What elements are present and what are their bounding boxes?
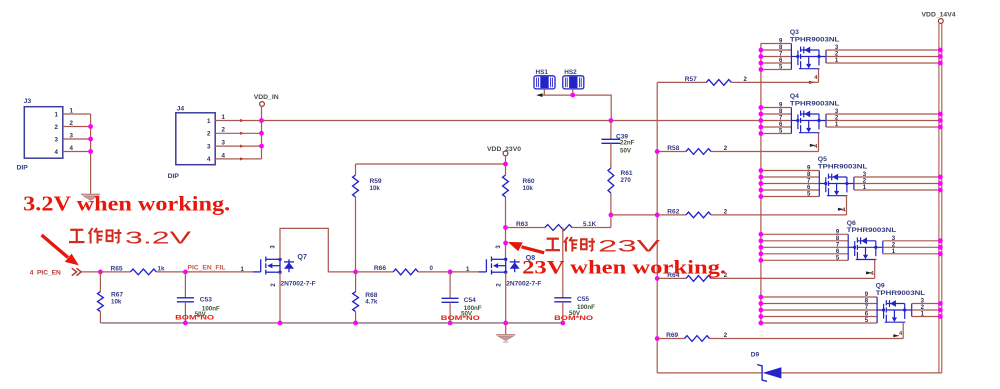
svg-text:R58: R58 <box>667 145 679 152</box>
wire Q4 gate stub pin <box>761 113 792 115</box>
wire Q4 drain stub <box>826 120 942 122</box>
arrow pin4 Q6 <box>866 271 872 274</box>
wire mosfet gate trunk <box>760 44 762 323</box>
svg-text:R63: R63 <box>516 221 528 228</box>
svg-text:C53: C53 <box>200 296 212 303</box>
wire HS1 drop <box>543 89 545 95</box>
junction bus R58 <box>655 149 660 154</box>
wire Q6 gate stub pin <box>761 233 848 235</box>
annotation red arrow to PIC_EN <box>42 235 68 258</box>
svg-text:C55: C55 <box>577 296 589 303</box>
wire Q5 gate stub pin <box>761 176 819 178</box>
svg-text:0: 0 <box>430 265 434 272</box>
svg-text:10k: 10k <box>523 185 534 192</box>
svg-text:4: 4 <box>222 152 226 159</box>
svg-text:TPHR9003NL: TPHR9003NL <box>818 163 868 170</box>
wire Q3 gate stub pin <box>761 49 792 51</box>
wire Q4 drain stub <box>826 126 942 128</box>
wire Q3 drain stub <box>826 49 942 51</box>
svg-text:3: 3 <box>70 132 74 139</box>
resistor R67 <box>99 272 101 292</box>
arrow pin4 Q9 <box>893 334 899 337</box>
svg-text:BOM*NO: BOM*NO <box>441 315 480 322</box>
wire Q3 drain stub <box>826 62 942 64</box>
svg-text:23V when working.: 23V when working. <box>522 257 726 278</box>
wire Q3 gate stub pin <box>761 62 792 64</box>
svg-text:2N7002-7-F: 2N7002-7-F <box>506 281 541 288</box>
svg-text:3.2V: 3.2V <box>125 228 192 248</box>
svg-text:Q5: Q5 <box>818 156 827 163</box>
wire Q3 drain stub <box>826 56 942 58</box>
wire rail to ground <box>505 323 507 334</box>
wire Q9 gate stub pin <box>761 303 877 305</box>
bottom rail (ground rail) <box>100 322 562 324</box>
wire Q4 gate stub pin <box>761 126 792 128</box>
wire to gate bus <box>611 214 657 216</box>
wire R60 to Q8 drain <box>505 197 507 259</box>
svg-text:10k: 10k <box>111 298 122 305</box>
wire VDD_IN long row to Q4 gate bus <box>262 120 761 122</box>
jumper HS2 <box>563 76 584 89</box>
svg-text:2N7002-7-F: 2N7002-7-F <box>281 281 316 288</box>
wire Q6 gate stub pin <box>761 253 848 255</box>
wire J4 pin stub <box>215 145 261 147</box>
wire Q4 gate stub pin <box>761 133 792 135</box>
ground center <box>496 334 515 336</box>
resistor R60 <box>505 164 507 175</box>
svg-text:1: 1 <box>222 114 226 121</box>
wire J3 pins to ground <box>90 114 92 194</box>
capacitor C39 <box>610 121 612 140</box>
svg-text:2: 2 <box>207 131 211 138</box>
wire HS2 drop <box>572 89 574 95</box>
svg-text:PIC_EN: PIC_EN <box>37 269 61 276</box>
svg-text:TPHR9003NL: TPHR9003NL <box>790 36 840 43</box>
junction VDD_23V0 <box>503 162 508 167</box>
resistor R59 <box>355 164 357 175</box>
resistor R58 <box>657 151 686 153</box>
wire Q9 gate stub pin <box>761 322 877 324</box>
transistor Q9 <box>877 297 912 323</box>
wire gate drive bus vertical <box>656 82 658 373</box>
junction rail C53 <box>183 321 188 326</box>
resistor R69 <box>657 338 684 340</box>
svg-text:4.7k: 4.7k <box>365 299 378 306</box>
svg-text:4: 4 <box>30 269 34 276</box>
arrow pin4 Q4 <box>810 144 816 147</box>
svg-text:BOM*NO: BOM*NO <box>554 315 593 322</box>
svg-text:R65: R65 <box>111 265 123 272</box>
wire Q3 gate stub pin <box>761 56 792 58</box>
svg-text:1: 1 <box>207 118 211 125</box>
junction HS2 <box>570 93 575 98</box>
wire VDD_14V4 bus (double line) <box>938 24 940 373</box>
wire Q9 pin4 <box>902 322 904 338</box>
capacitor C53 <box>184 272 186 298</box>
svg-text:23V: 23V <box>598 238 660 256</box>
junction PIC_EN_FIL / C53 <box>183 270 188 275</box>
svg-text:R60: R60 <box>523 178 535 185</box>
svg-text:TPHR9003NL: TPHR9003NL <box>876 290 926 297</box>
wire J3 pin stub <box>63 126 91 128</box>
svg-text:50V: 50V <box>620 148 632 155</box>
arrow pin4 Q5 <box>838 208 844 211</box>
svg-text:3: 3 <box>222 140 226 147</box>
svg-text:10k: 10k <box>370 185 381 192</box>
resistor R64 <box>657 277 686 279</box>
connector J4 <box>176 113 215 165</box>
svg-text:4: 4 <box>55 149 59 156</box>
junction rail R68 <box>353 321 358 326</box>
svg-text:3: 3 <box>55 136 59 143</box>
wire Q4 gate stub pin <box>761 120 792 122</box>
svg-text:Q9: Q9 <box>876 283 885 290</box>
wire Q6 gate stub pin <box>761 259 848 261</box>
capacitor C54 <box>449 272 451 298</box>
wire Q7 drain loop <box>280 228 356 272</box>
wire Q5 drain stub <box>854 176 942 178</box>
svg-text:HS1: HS1 <box>536 69 549 76</box>
arrow pin4 Q3 <box>809 81 816 84</box>
wire Q9 gate stub pin <box>761 316 877 318</box>
wire HS row <box>538 95 611 120</box>
diode D9 (zener) <box>757 365 767 382</box>
annotation red arrow to Q8 drain <box>522 247 545 253</box>
transistor Q8 <box>479 257 520 275</box>
svg-text:R69: R69 <box>666 332 678 339</box>
junction bus R62 <box>655 213 660 218</box>
wire J4 pin stub <box>215 132 261 134</box>
junction rail Q8/ground <box>503 321 508 326</box>
wire Q7 source to rail <box>279 272 281 323</box>
svg-text:DIP: DIP <box>17 165 29 172</box>
wire Q6 gate stub pin <box>761 240 848 242</box>
junction HS row / VDD_IN row <box>609 118 614 123</box>
wire Q5 drain stub <box>854 189 942 191</box>
wire Q5 gate stub pin <box>761 183 819 185</box>
svg-text:J4: J4 <box>177 106 185 113</box>
junction J3 pin4 <box>88 149 93 154</box>
resistor R57 <box>657 81 706 83</box>
svg-text:BOM*NO: BOM*NO <box>175 314 214 321</box>
svg-text:TPHR9003NL: TPHR9003NL <box>847 227 897 234</box>
svg-text:3: 3 <box>207 143 211 150</box>
wire Q9 drain stub <box>912 309 942 311</box>
power symbol VDD_IN <box>260 102 265 107</box>
ground J3 <box>81 193 100 195</box>
junction bus R64 <box>655 276 660 281</box>
wire VDD_23V0 top row <box>356 163 506 165</box>
svg-text:5.1K: 5.1K <box>583 221 597 228</box>
junction J4 pin3 <box>259 144 264 149</box>
junction rail C54 <box>448 321 453 326</box>
transistor Q4 <box>791 108 826 134</box>
junction R63 tap <box>503 225 508 230</box>
wire Q9 drain stub <box>912 303 942 305</box>
transistor Q3 <box>791 44 826 70</box>
svg-text:D9: D9 <box>751 352 760 359</box>
wire Q5 pin4 <box>846 196 848 215</box>
wire PIC_EN to R65 <box>82 271 131 273</box>
wire Q4 pin4 <box>818 133 820 152</box>
wire Q3 gate stub pin <box>761 69 792 71</box>
junction arrow point <box>503 241 508 246</box>
transistor Q5 <box>819 171 854 197</box>
svg-text:Q3: Q3 <box>790 29 799 36</box>
svg-text:Q4: Q4 <box>790 93 799 100</box>
svg-text:R62: R62 <box>667 208 679 215</box>
wire Q5 drain stub <box>854 183 942 185</box>
wire J3 pin stub <box>63 113 91 115</box>
svg-text:4: 4 <box>70 145 74 152</box>
svg-text:3.2V when working.: 3.2V when working. <box>23 192 230 216</box>
wire Q6 drain stub <box>883 240 942 242</box>
annotation red chinese 工作时3.2V <box>69 230 85 242</box>
resistor R68 <box>355 272 357 292</box>
svg-text:VDD_IN: VDD_IN <box>254 94 279 101</box>
junction bus R69 <box>655 336 660 341</box>
power symbol VDD_23V0 <box>503 151 508 156</box>
svg-text:1: 1 <box>55 111 59 118</box>
transistor Q7 <box>253 257 294 275</box>
transistor Q6 <box>848 234 883 260</box>
wire Q8 source to rail <box>505 272 507 323</box>
wire Q5 gate stub pin <box>761 189 819 191</box>
junction rail C55 <box>560 321 565 326</box>
junction R61/R63/R62 row <box>609 213 614 218</box>
resistor R63 <box>506 227 546 229</box>
svg-text:HS2: HS2 <box>564 69 577 76</box>
svg-text:R59: R59 <box>370 178 382 185</box>
svg-text:R57: R57 <box>685 76 697 83</box>
svg-text:R67: R67 <box>111 291 123 298</box>
connector J3 <box>24 107 63 159</box>
wire Q6 gate stub pin <box>761 246 848 248</box>
svg-text:R66: R66 <box>374 265 386 272</box>
svg-text:4: 4 <box>207 156 211 163</box>
junction C54 tap <box>448 270 453 275</box>
wire Q9 gate stub pin <box>761 309 877 311</box>
svg-text:PIC_EN_FIL: PIC_EN_FIL <box>188 265 226 272</box>
wire Q6 drain stub <box>883 253 942 255</box>
svg-text:DIP: DIP <box>168 173 180 180</box>
svg-text:TPHR9003NL: TPHR9003NL <box>790 100 840 107</box>
svg-text:VDD_23V0: VDD_23V0 <box>487 146 521 153</box>
svg-text:VDD_14V4: VDD_14V4 <box>922 12 956 19</box>
wire J4 pin stub <box>215 120 261 122</box>
wire Q3 gate stub pin <box>761 43 792 45</box>
capacitor C55 <box>562 228 564 298</box>
svg-text:22nF: 22nF <box>620 139 635 146</box>
svg-text:270: 270 <box>621 177 632 184</box>
resistor R61 <box>608 168 614 193</box>
wire Q6 pin4 <box>874 260 876 279</box>
svg-text:2: 2 <box>70 120 74 127</box>
junction J4 pin1 <box>259 118 264 123</box>
wire Q5 gate stub pin <box>761 170 819 172</box>
junction rail Q7 <box>278 321 283 326</box>
junction J3 pin3 <box>88 137 93 142</box>
wire J4 vertical bus <box>261 107 263 159</box>
wire Q3 pin4 <box>818 69 820 83</box>
svg-text:J3: J3 <box>24 98 32 105</box>
junction J3 pin2 <box>88 124 93 129</box>
annotation red chinese 工作时23V <box>546 239 561 250</box>
svg-text:C54: C54 <box>464 297 476 304</box>
wire Q5 gate stub pin <box>761 196 819 198</box>
wire R65 to Q7 gate <box>157 271 254 273</box>
svg-text:1k: 1k <box>158 265 165 272</box>
wire Q4 gate stub pin <box>761 107 792 109</box>
svg-text:Q6: Q6 <box>847 220 856 227</box>
junction R66/R68/R59 <box>353 270 358 275</box>
svg-text:2: 2 <box>55 124 59 131</box>
junction J4 pin2 <box>259 131 264 136</box>
wire J3 pin stub <box>63 151 91 153</box>
svg-text:2: 2 <box>222 127 226 134</box>
wire Q4 drain stub <box>826 113 942 115</box>
wire Q9 gate stub pin <box>761 296 877 298</box>
resistor R65 <box>130 269 156 275</box>
power symbol VDD_14V4 <box>938 19 943 24</box>
jumper HS1 <box>534 76 555 89</box>
wire Q9 drain stub <box>912 316 942 318</box>
svg-text:Q7: Q7 <box>298 254 307 261</box>
wire D9 row <box>657 372 762 374</box>
wire Q6 drain stub <box>883 246 942 248</box>
junction PIC_EN / R67 <box>98 270 103 275</box>
svg-text:1: 1 <box>70 107 74 114</box>
wire J4 pin stub <box>215 158 261 160</box>
wire J3 pin stub <box>63 138 91 140</box>
resistor R62 <box>657 214 686 216</box>
